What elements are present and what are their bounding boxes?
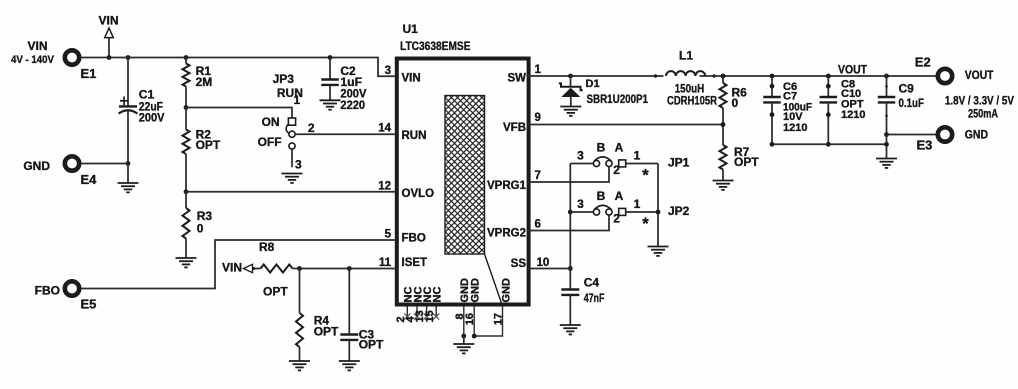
terminal E4 GND — [23, 156, 97, 187]
svg-text:R8: R8 — [259, 240, 275, 254]
svg-text:2M: 2M — [196, 75, 213, 89]
svg-text:E1: E1 — [81, 66, 97, 81]
node VOUT label — [838, 63, 868, 77]
svg-text:*: * — [642, 215, 649, 233]
junction C6 bottom — [770, 142, 775, 147]
junction C2 top — [328, 55, 333, 60]
svg-text:ON: ON — [262, 115, 280, 129]
svg-text:2: 2 — [308, 121, 315, 135]
svg-text:A: A — [615, 189, 624, 203]
jumper JP2 — [570, 189, 689, 233]
op-amp U1 LTC3638EMSE converter IC — [397, 22, 529, 304]
junction C8 top — [826, 74, 831, 79]
junction C6 top — [770, 74, 775, 79]
jumper JP1 — [570, 140, 689, 184]
svg-text:JP2: JP2 — [668, 204, 690, 218]
svg-text:C4: C4 — [584, 276, 600, 290]
svg-text:CDRH105R: CDRH105R — [667, 93, 717, 107]
node output spec text — [945, 93, 1014, 120]
wire VIN rail from E1 to U1 pin 3 — [81, 58, 396, 77]
U1 GND pin 8 — [454, 278, 471, 336]
junction VIN arrow stub — [107, 55, 112, 60]
pin number 5 — [385, 228, 392, 240]
svg-text:U1: U1 — [403, 22, 419, 36]
svg-text:VOUT: VOUT — [965, 68, 994, 82]
svg-text:VIN: VIN — [222, 261, 242, 275]
pin number 7 — [535, 170, 541, 182]
terminal E1 VIN — [11, 39, 96, 81]
svg-text:1: 1 — [634, 149, 641, 163]
junction R2/R3/OVLO — [184, 189, 189, 194]
capacitor C1 22uF 200V polarized — [119, 58, 165, 164]
svg-text:SS: SS — [511, 258, 527, 270]
svg-text:E2: E2 — [915, 55, 931, 70]
terminal E2 VOUT — [915, 55, 994, 84]
wire E4 to C1 — [81, 163, 128, 165]
resistor R7 OPT — [720, 145, 760, 181]
svg-text:16: 16 — [464, 313, 476, 325]
node VIN arrow at R8 — [222, 261, 261, 275]
svg-text:2: 2 — [613, 163, 620, 177]
svg-text:1210: 1210 — [783, 122, 807, 134]
capacitor C9 0.1uF — [878, 76, 924, 159]
diode D1 SBR1U200P1 — [559, 76, 648, 107]
svg-text:15: 15 — [424, 310, 436, 322]
svg-text:9: 9 — [535, 112, 541, 124]
svg-text:0: 0 — [197, 221, 204, 235]
svg-text:1: 1 — [294, 93, 301, 107]
resistor R1 2M — [183, 58, 213, 108]
svg-text:OPT: OPT — [196, 138, 221, 152]
junction C8 bottom — [826, 142, 831, 147]
svg-text:OPT: OPT — [359, 338, 384, 352]
U1 GND pin 16 — [464, 278, 481, 336]
svg-text:200V: 200V — [139, 111, 165, 125]
svg-text:OVLO: OVLO — [402, 188, 435, 200]
junction E3 gnd tap — [884, 132, 889, 137]
wire JP1/JP2 pin1 to ground — [657, 164, 659, 247]
pin number 6 — [535, 218, 541, 230]
svg-text:L1: L1 — [679, 49, 693, 63]
wire JP select vertical to SS — [569, 164, 571, 269]
svg-text:10: 10 — [537, 257, 550, 269]
svg-text:SBR1U200P1: SBR1U200P1 — [587, 92, 649, 106]
node VIN power arrow — [98, 14, 118, 58]
terminal E5 FBO — [35, 281, 97, 311]
U1 pin name VPRG1 — [487, 180, 527, 192]
U1 GND pin 17 exposed pad — [474, 278, 512, 336]
wire output cap ground rail — [772, 143, 887, 145]
svg-text:E4: E4 — [81, 172, 98, 187]
pin number 3 — [385, 65, 391, 77]
resistor R2 OPT — [183, 108, 221, 192]
junction GND pin 8 — [461, 334, 466, 339]
wire C1 to ground — [127, 164, 129, 184]
svg-text:GND: GND — [500, 278, 512, 303]
capacitor C2 1uF 200V 2220 — [321, 58, 366, 112]
capacitor C3 OPT — [340, 269, 384, 362]
resistor R8 OPT — [259, 240, 293, 298]
junction R1 top — [184, 55, 189, 60]
svg-text:*: * — [642, 167, 649, 185]
resistor R3 0 — [183, 192, 213, 258]
junction C9 top — [884, 74, 889, 79]
svg-text:4V - 140V: 4V - 140V — [11, 54, 55, 66]
junction C1/E4 — [126, 161, 131, 166]
U1 pin name SS — [511, 258, 527, 270]
svg-text:OPT: OPT — [263, 284, 288, 298]
svg-text:E5: E5 — [81, 296, 97, 311]
wire SW net U1 pin 1 to L1 — [528, 75, 664, 77]
U1 pin name VIN — [402, 72, 421, 84]
ground below JP1/JP2 — [648, 247, 669, 256]
svg-text:JP3: JP3 — [273, 72, 295, 86]
svg-text:1: 1 — [535, 64, 542, 76]
wire VPRG2 net U1 pin 6 to JP2 — [528, 215, 609, 230]
svg-text:7: 7 — [535, 170, 541, 182]
capacitor C8 C10 OPT 1210 — [820, 76, 866, 144]
resistor R4 OPT — [296, 269, 339, 362]
svg-text:VFB: VFB — [503, 122, 526, 134]
junction C1 top — [126, 55, 131, 60]
svg-text:1.8V / 3.3V / 5V: 1.8V / 3.3V / 5V — [945, 93, 1014, 107]
U1 NC pin 13 — [414, 287, 434, 323]
U1 exposed pad hatch — [445, 96, 503, 307]
svg-text:E3: E3 — [917, 137, 933, 152]
U1 pin name RUN — [402, 130, 427, 142]
jumper JP3 RUN — [186, 72, 315, 171]
junction D1 cathode — [568, 74, 573, 79]
ground below R3 — [176, 258, 197, 267]
wire GND pins to ground — [463, 336, 465, 344]
pin number 12 — [378, 181, 391, 193]
U1 pin name OVLO — [402, 188, 435, 200]
svg-text:C9: C9 — [899, 82, 915, 96]
svg-text:ISET: ISET — [402, 257, 428, 269]
terminal E3 GND — [917, 127, 989, 152]
svg-text:0: 0 — [732, 96, 739, 110]
svg-text:47nF: 47nF — [584, 291, 605, 305]
ground below C1 — [118, 183, 139, 192]
junction SS row — [568, 266, 573, 271]
svg-text:GND: GND — [470, 278, 482, 303]
svg-text:GND: GND — [965, 127, 988, 141]
junction GND pin 16 — [472, 334, 477, 339]
svg-text:5: 5 — [385, 228, 392, 240]
svg-text:2: 2 — [613, 212, 620, 226]
junction R1/R2/JP3 RUN — [184, 105, 189, 110]
ground below JP3 — [282, 174, 303, 183]
svg-text:FBO: FBO — [402, 233, 426, 245]
junction JP2 pin 3 — [568, 210, 573, 215]
ground below C3 — [339, 361, 360, 370]
wire ISET net to U1 pin 11 — [293, 268, 397, 270]
svg-text:3: 3 — [577, 149, 584, 163]
svg-text:JP1: JP1 — [668, 156, 690, 170]
svg-text:VIN: VIN — [98, 14, 118, 28]
U1 pin name VPRG2 — [487, 227, 526, 239]
svg-text:VPRG2: VPRG2 — [487, 227, 526, 239]
svg-text:17: 17 — [493, 313, 505, 325]
pin number 1 — [535, 64, 542, 76]
U1 pin name FBO — [402, 233, 426, 245]
junction JP2 pin 1 — [656, 210, 661, 215]
svg-text:3: 3 — [385, 65, 391, 77]
svg-text:VIN: VIN — [27, 39, 47, 53]
U1 NC pin 4 — [405, 287, 425, 323]
junction R4 top — [297, 266, 302, 271]
capacitor C4 47nF — [561, 269, 604, 326]
ground below C2 — [320, 100, 341, 109]
svg-text:A: A — [615, 140, 624, 154]
capacitor C6 C7 100uF 10V 1210 — [763, 76, 812, 144]
svg-text:VIN: VIN — [402, 72, 421, 84]
ground below R7 — [713, 181, 734, 190]
svg-text:0.1uF: 0.1uF — [899, 96, 924, 110]
pin number 11 — [379, 257, 392, 269]
wire E5 to U1 FBO pin 5 — [81, 240, 396, 289]
svg-text:250mA: 250mA — [968, 107, 998, 121]
resistor R6 0 — [720, 76, 748, 145]
junction R6 top — [721, 74, 726, 79]
U1 pin name SW — [507, 72, 526, 84]
svg-text:B: B — [597, 189, 606, 203]
ground below R4 — [289, 361, 310, 370]
U1 NC pin 2 — [395, 287, 415, 323]
U1 NC pin 15 — [424, 287, 444, 323]
ground below D1 — [560, 107, 581, 116]
svg-text:OPT: OPT — [734, 155, 759, 169]
svg-text:D1: D1 — [586, 78, 600, 90]
svg-text:VOUT: VOUT — [838, 63, 868, 77]
wire VOUT rail L1 to E2 — [700, 75, 937, 77]
svg-text:1: 1 — [634, 197, 641, 211]
junction VFB divider — [721, 122, 726, 127]
wire SS net U1 pin 10 — [528, 268, 570, 270]
wire VFB net U1 pin 9 to R6/R7 — [528, 124, 723, 126]
U1 pin name VFB — [503, 122, 526, 134]
wire OVLO net to U1 pin 12 — [186, 191, 396, 193]
ground below C4 — [560, 325, 581, 334]
svg-text:14: 14 — [378, 123, 391, 135]
wire JP3 pin 2 to U1 RUN pin 14 — [295, 133, 396, 135]
svg-text:12: 12 — [378, 181, 391, 193]
inductor L1 150uH CDRH105R — [654, 49, 717, 108]
ground below U1 — [453, 344, 474, 353]
junction C9 bottom — [884, 142, 889, 147]
svg-text:SW: SW — [507, 72, 526, 84]
svg-text:11: 11 — [379, 257, 392, 269]
wire VPRG1 net U1 pin 7 to JP1 — [528, 167, 609, 182]
svg-text:RUN: RUN — [402, 130, 427, 142]
wire E3 to ground rail — [887, 134, 937, 136]
svg-text:FBO: FBO — [35, 284, 60, 298]
svg-text:3: 3 — [577, 197, 584, 211]
svg-text:VPRG1: VPRG1 — [487, 180, 527, 192]
svg-text:LTC3638EMSE: LTC3638EMSE — [400, 39, 471, 53]
pin number 9 — [535, 112, 541, 124]
svg-text:B: B — [597, 140, 606, 154]
svg-text:1210: 1210 — [841, 109, 865, 121]
pin number 14 — [378, 123, 391, 135]
svg-text:OPT: OPT — [314, 324, 339, 338]
junction C3 top — [347, 266, 352, 271]
ground below C9 — [876, 159, 897, 168]
svg-text:GND: GND — [23, 159, 50, 173]
svg-text:2220: 2220 — [340, 98, 365, 112]
svg-text:6: 6 — [535, 218, 541, 230]
svg-text:3: 3 — [295, 157, 302, 171]
svg-text:NC: NC — [432, 287, 444, 303]
svg-text:OFF: OFF — [258, 135, 282, 149]
U1 pin name ISET — [402, 257, 428, 269]
pin number 10 — [537, 257, 550, 269]
